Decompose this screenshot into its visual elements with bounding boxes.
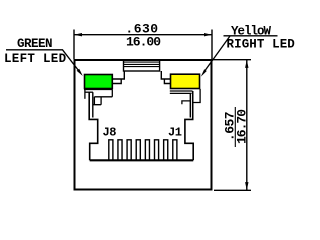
latch block inner line 3 (124, 66, 160, 68)
leader line to yellow LED (204, 36, 231, 73)
left LED housing right edge (111, 89, 113, 96)
svg-text:LEFT LED: LEFT LED (4, 52, 67, 66)
svg-text:16.00: 16.00 (126, 34, 161, 49)
pin 4 (145, 140, 149, 160)
leader line to green LED (63, 50, 81, 73)
right dimension top arrow (245, 60, 248, 68)
pin 7 (118, 140, 122, 160)
top dimension right arrow (204, 33, 212, 36)
left LED housing lower line (94, 96, 112, 98)
left LED housing bottom line 2 (85, 91, 93, 93)
underline under GREEN (6, 49, 63, 51)
latch block inner line 1 (124, 61, 160, 63)
latch block top center (124, 60, 160, 71)
latch block inner line 2 (124, 63, 160, 65)
right dimension bottom arrow (245, 182, 248, 190)
left LED housing left edge (84, 89, 86, 98)
pin 8 (109, 140, 113, 160)
pin 1 (173, 140, 177, 160)
fraction bar between .657 and 16.70 (234, 107, 236, 147)
pin 5 (136, 140, 140, 160)
right dimension extension line bottom (214, 189, 251, 191)
yellow LED (171, 74, 200, 88)
top dimension left arrow (74, 33, 82, 36)
pin 6 (127, 140, 131, 160)
leader arrowhead yellow (201, 69, 207, 76)
cavity right wall (185, 91, 193, 160)
connector outer body outline (75, 60, 212, 190)
cavity floor line (90, 159, 194, 161)
svg-text:J8: J8 (103, 125, 117, 139)
right step latch-to-LED inner (164, 79, 170, 84)
left LED housing bottom line 1 (84, 88, 112, 90)
svg-text:GREEN: GREEN (17, 37, 52, 51)
cavity right wall channel second line (189, 93, 191, 117)
left step latch-to-LED inner (112, 79, 121, 84)
right LED housing bottom line 2 (170, 92, 192, 94)
cavity left wall channel second line (92, 92, 94, 117)
green LED (85, 75, 113, 89)
right step latch-to-LED outer (161, 71, 170, 79)
cavity left wall (89, 92, 98, 160)
right dimension line .657/16.70 (246, 60, 248, 191)
svg-text:16.70: 16.70 (235, 109, 250, 144)
top dimension extension line right (211, 30, 213, 60)
left step latch-to-LED outer (112, 71, 124, 79)
top dimension extension line left (73, 30, 75, 60)
right LED housing bar (182, 101, 190, 104)
left LED lead slot (93, 97, 101, 105)
pin 3 (155, 140, 159, 160)
top dimension line .630/16.00 (74, 34, 212, 36)
right LED housing right edge (193, 89, 201, 103)
svg-text:RIGHT LED: RIGHT LED (227, 37, 296, 51)
underline under YelloW (224, 35, 278, 37)
right LED housing bottom line 1 (170, 90, 193, 92)
svg-text:J1: J1 (168, 126, 182, 140)
right dimension extension line top (213, 59, 251, 61)
leader arrowhead green (77, 69, 83, 76)
pin 2 (164, 140, 168, 160)
